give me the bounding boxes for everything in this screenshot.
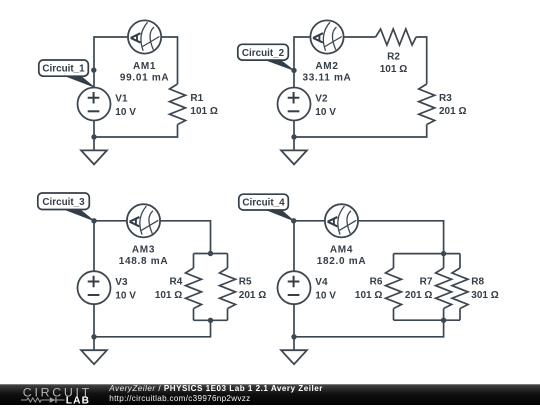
wire: R7 top lead	[443, 254, 445, 268]
junction: circuit 1 bottom rail	[91, 134, 96, 139]
svg-text:201 Ω: 201 Ω	[405, 290, 432, 301]
svg-text:99.01 mA: 99.01 mA	[120, 72, 170, 83]
wire: V4 minus terminal to ground lead (circuit 4)	[293, 304, 295, 350]
svg-text:AM1: AM1	[133, 61, 156, 72]
label R7 value	[405, 277, 433, 301]
node Circuit_3 pointer	[65, 210, 94, 221]
ammeter AM1	[128, 20, 161, 53]
node Circuit_1 pointer	[66, 76, 94, 87]
label R5 value	[239, 277, 266, 301]
resistor R5	[220, 268, 236, 309]
wire: R4 top lead	[193, 254, 195, 269]
svg-text:LAB: LAB	[66, 396, 90, 405]
svg-text:201 Ω: 201 Ω	[239, 290, 266, 301]
node Circuit_4 pointer	[266, 210, 294, 221]
junction: parallel bottom (circuit 3)	[208, 318, 213, 323]
wire: V3 plus terminal up and across to AM3 (circuit 3)	[94, 221, 127, 271]
label R1 value	[190, 93, 217, 117]
label AM2 reading	[303, 61, 352, 84]
label R8 value	[471, 277, 498, 301]
wire: AM3 to parallel network top (circuit 3)	[160, 221, 210, 254]
wire: R1 bottom to bottom rail (circuit 1)	[94, 125, 178, 138]
wire: AM4 to parallel network top (circuit 4)	[358, 221, 444, 254]
svg-text:AM4: AM4	[330, 245, 353, 256]
label AM1 reading	[120, 61, 170, 84]
label R2 value	[380, 52, 407, 75]
node dot on wire (circuit 2)	[291, 68, 296, 73]
svg-text:V1: V1	[115, 93, 128, 104]
resistor R6	[386, 268, 402, 309]
svg-text:R2: R2	[387, 52, 400, 63]
voltage source V4	[278, 271, 311, 304]
label R6 value	[355, 277, 383, 301]
label V3 value	[115, 277, 136, 301]
wire: parallel bottom bar (circuit 3)	[194, 319, 228, 321]
svg-text:Circuit_3: Circuit_3	[42, 197, 85, 208]
label R3 value	[439, 93, 466, 117]
resistor R7	[436, 268, 452, 309]
wire: R2 right lead to R3 top (circuit 2)	[416, 37, 427, 84]
node Circuit_4 flag	[239, 194, 288, 210]
svg-text:AM2: AM2	[315, 61, 338, 72]
wire: AM2 to R2 left lead (circuit 2)	[344, 36, 376, 38]
node Circuit_2 pointer	[265, 60, 294, 71]
svg-text:AveryZeiler / PHYSICS 1E03 Lab: AveryZeiler / PHYSICS 1E03 Lab 1 2.1 Ave…	[108, 384, 323, 393]
CircuitLab logo schematic glyph (resistor and diode)	[21, 397, 65, 403]
junction: circuit 3 bottom rail	[91, 334, 96, 339]
label AM4 reading	[317, 245, 367, 268]
resistor R2	[376, 29, 417, 45]
wire: V2 minus terminal to ground lead (circuit 2)	[293, 121, 295, 151]
wire: V3 minus terminal to ground lead (circuit 3)	[93, 304, 95, 350]
svg-text:301 Ω: 301 Ω	[471, 290, 498, 301]
svg-text:V4: V4	[315, 277, 328, 288]
node dot at corner (circuit 3)	[91, 218, 96, 223]
svg-text:101 Ω: 101 Ω	[380, 64, 407, 75]
wire: V1 plus terminal up and across to AM1 (circuit 1 top-left)	[94, 37, 127, 88]
ground (circuit 4)	[281, 350, 307, 364]
svg-text:10 V: 10 V	[315, 291, 336, 302]
junction: parallel top (circuit 3)	[208, 251, 213, 256]
svg-text:10 V: 10 V	[315, 107, 336, 118]
ammeter AM3	[127, 204, 160, 237]
svg-text:Circuit_2: Circuit_2	[242, 48, 285, 59]
resistor R3	[419, 84, 435, 125]
junction: circuit 4 bottom rail	[291, 334, 296, 339]
svg-text:R7: R7	[420, 277, 433, 288]
label AM3 reading	[119, 245, 169, 268]
wire: parallel top bar (circuit 4)	[394, 253, 461, 255]
ground (circuit 2)	[281, 150, 307, 164]
svg-text:http://circuitlab.com/c39976np: http://circuitlab.com/c39976np2wvzz	[109, 394, 250, 403]
svg-text:V2: V2	[315, 93, 328, 104]
wire: R6 bottom lead	[393, 309, 395, 321]
resistor R1	[170, 84, 186, 125]
wire: V2 plus terminal up and across to AM2 (circuit 2)	[294, 37, 310, 88]
svg-text:R4: R4	[170, 277, 183, 288]
ammeter AM4	[325, 204, 358, 237]
wire: R4 bottom lead	[193, 309, 195, 321]
svg-text:R8: R8	[471, 277, 484, 288]
junction: parallel top (circuit 4)	[441, 251, 446, 256]
wire: parallel bottom bar (circuit 4)	[394, 319, 461, 321]
wire: R5 top lead	[227, 254, 229, 269]
svg-text:R6: R6	[370, 277, 383, 288]
label R4 value	[155, 277, 183, 301]
wire: parallel network to bottom rail (circuit 3)	[94, 320, 211, 337]
node dot at corner (circuit 4)	[291, 218, 296, 223]
wire: V1 minus terminal to ground lead (circuit 1)	[93, 121, 95, 151]
voltage source V2	[278, 88, 311, 121]
svg-text:182.0 mA: 182.0 mA	[317, 256, 367, 267]
wire: R5 bottom lead	[227, 309, 229, 321]
node Circuit_2 flag	[238, 44, 288, 60]
label V2 value	[315, 93, 336, 117]
ground (circuit 1)	[81, 150, 107, 164]
svg-text:Circuit_4: Circuit_4	[242, 198, 285, 209]
svg-text:101 Ω: 101 Ω	[190, 106, 217, 117]
svg-text:R1: R1	[190, 93, 203, 104]
svg-text:201 Ω: 201 Ω	[439, 106, 466, 117]
svg-text:148.8 mA: 148.8 mA	[119, 256, 169, 267]
ground (circuit 3)	[81, 350, 107, 364]
wire: V4 plus terminal up and across to AM4 (circuit 4)	[294, 221, 325, 271]
resistor R8	[452, 268, 468, 309]
svg-text:33.11 mA: 33.11 mA	[303, 72, 352, 83]
svg-text:R5: R5	[239, 277, 252, 288]
node Circuit_3 flag	[38, 193, 90, 210]
svg-text:R3: R3	[439, 93, 452, 104]
voltage source V1	[78, 88, 111, 121]
svg-text:V3: V3	[115, 277, 128, 288]
wire: R6 top lead	[393, 254, 395, 268]
wire: R3 bottom to bottom rail (circuit 2)	[294, 125, 427, 138]
junction: parallel bottom (circuit 4)	[441, 318, 446, 323]
svg-text:Circuit_1: Circuit_1	[42, 64, 85, 75]
svg-text:10 V: 10 V	[115, 291, 136, 302]
wire: R8 bottom lead	[459, 309, 461, 321]
wire: parallel top bar (circuit 3)	[194, 253, 228, 255]
wire: R8 top lead	[459, 254, 461, 268]
svg-text:10 V: 10 V	[115, 107, 136, 118]
label V1 value	[115, 93, 136, 117]
wire: AM1 to R1 top (circuit 1 top-right)	[161, 37, 178, 84]
node Circuit_1 flag	[39, 60, 89, 76]
svg-text:AM3: AM3	[132, 245, 155, 256]
svg-text:101 Ω: 101 Ω	[355, 290, 382, 301]
junction: circuit 2 bottom rail	[291, 134, 296, 139]
svg-text:101 Ω: 101 Ω	[155, 290, 182, 301]
label V4 value	[315, 277, 336, 301]
ammeter AM2	[310, 20, 343, 53]
voltage source V3	[78, 271, 111, 304]
node dot on wire (circuit 1)	[91, 67, 96, 72]
wire: R7 bottom lead	[443, 309, 445, 321]
wire: parallel network to bottom rail (circuit 4)	[294, 320, 444, 337]
resistor R4	[186, 268, 202, 309]
